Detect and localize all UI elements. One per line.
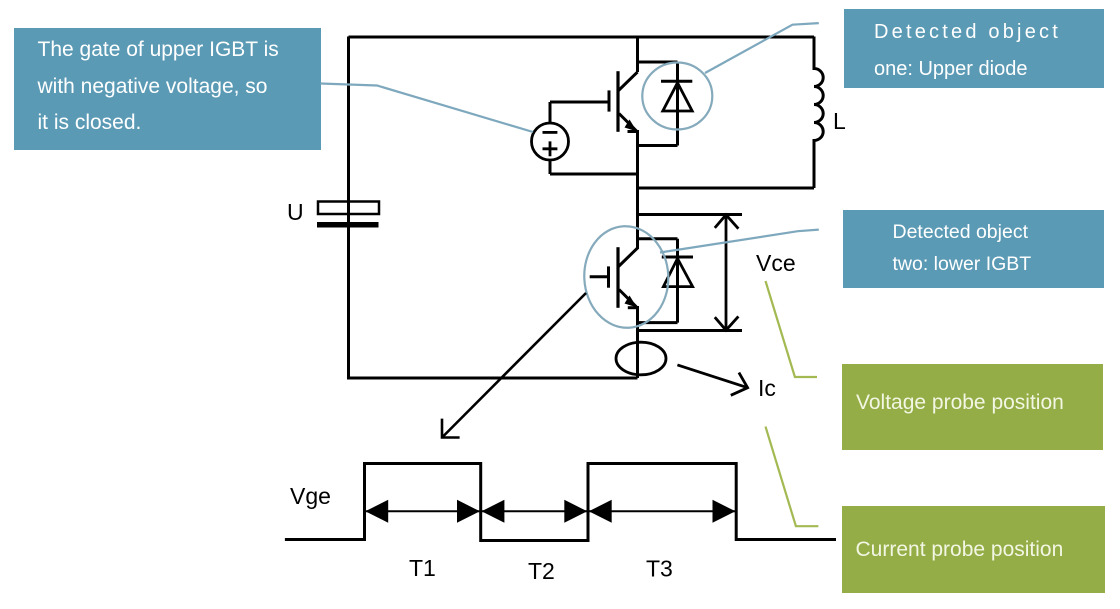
callout box: detected object two lower IGBT [843, 210, 1104, 288]
gate drive source V1 circle [532, 123, 569, 160]
leader line: Vce to voltage probe box [766, 281, 818, 377]
wire: bottom rail [347, 377, 638, 380]
svg-text:Vge: Vge [290, 483, 331, 509]
T1 double arrow [365, 510, 480, 512]
transistor lower IGBT collector lead [619, 248, 638, 267]
Vge waveform [285, 464, 836, 541]
callout box: current probe position [842, 506, 1105, 593]
arrow Ic [677, 365, 747, 388]
diode lower: triangle [663, 259, 692, 287]
svg-text:T2: T2 [528, 558, 555, 584]
transistor upper IGBT emitter lead with arrow [619, 114, 637, 132]
leader line: lower IGBT ellipse to box3 [660, 230, 819, 253]
callout box: gate of upper IGBT note [14, 28, 321, 150]
wire: mid bus middle segment [636, 130, 639, 249]
svg-text:T1: T1 [409, 555, 436, 581]
diode upper: cathode bar [661, 80, 692, 83]
inductor L [814, 37, 823, 189]
wire: mid bus upper segment [636, 37, 639, 73]
capacitor U bottom plate [317, 222, 379, 228]
wire: Vce top rail [638, 213, 743, 216]
T2 double arrow [482, 510, 588, 512]
wire: upper diode branch [638, 62, 678, 146]
wire: inductor bottom rail [638, 187, 815, 190]
wire: source bottom lead to bus [550, 160, 638, 174]
svg-text:U: U [287, 199, 304, 225]
wire: lower gate lead [590, 275, 609, 278]
svg-text:T3: T3 [646, 556, 673, 582]
transistor lower IGBT gate bar [607, 266, 610, 287]
svg-text:L: L [833, 108, 846, 134]
transistor upper IGBT body bar [616, 71, 619, 132]
transistor lower IGBT emitter lead with arrow [619, 290, 637, 308]
wire: left bus [347, 37, 350, 379]
transistor upper IGBT gate bar [608, 90, 611, 111]
leader line: upper diode circle to box2 [705, 23, 819, 73]
wire: upper gate lead [550, 101, 609, 104]
transistor lower IGBT body bar [616, 247, 619, 308]
wire: source top lead [549, 102, 552, 123]
transistor upper IGBT collector lead [619, 72, 638, 91]
leader line: box1 to gate source [321, 84, 534, 133]
source plus sign [543, 141, 558, 156]
capacitor U top plate [318, 202, 379, 215]
svg-text:Vce: Vce [756, 250, 796, 276]
wire: mid bus lower segment [636, 306, 639, 378]
arrow from lower IGBT to waveform [442, 293, 586, 438]
diode lower: cathode bar [662, 256, 693, 259]
callout box: voltage probe position [842, 364, 1103, 451]
callout box: detected object one upper diode [844, 9, 1105, 88]
highlight ellipse around lower IGBT [582, 224, 671, 330]
highlight circle around upper diode [642, 63, 712, 130]
current probe ellipse [616, 342, 666, 375]
Vce measurement double arrow [725, 215, 728, 331]
source minus sign [543, 131, 558, 134]
wire: lower diode branch [638, 239, 678, 323]
leader line: current probe box to Ic [766, 427, 819, 527]
T3 double arrow [589, 510, 736, 512]
wire: Vce bottom rail [638, 329, 743, 332]
svg-text:Ic: Ic [758, 375, 776, 401]
diode upper: triangle [663, 83, 692, 111]
wire: top rail [349, 36, 815, 39]
